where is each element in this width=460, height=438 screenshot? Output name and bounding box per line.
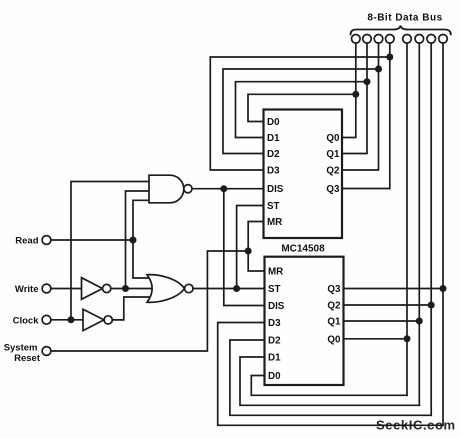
svg-text:D2: D2 <box>267 149 280 160</box>
input terminal Read <box>42 236 51 245</box>
input terminal Write <box>42 284 51 293</box>
wire bus bit3 to U1 D3 <box>210 57 389 170</box>
junction MR node <box>245 248 252 255</box>
wire bus bit7 loop to U2 D3 <box>218 323 443 426</box>
wire Write-inv to NAND input B <box>126 191 149 289</box>
inverter G4 (Clock) <box>83 309 104 330</box>
wire bus bit4 loop to U2 D0 <box>251 376 407 396</box>
bus terminal 8 <box>439 35 448 44</box>
svg-text:ST: ST <box>267 201 280 212</box>
svg-text:Q1: Q1 <box>327 317 341 328</box>
bus brace <box>351 26 451 35</box>
junction Read node <box>130 237 137 244</box>
wire bus bit3 vertical to U1 Q3 <box>342 43 390 188</box>
junction Write-inv node <box>122 285 129 292</box>
wire System Reset to MR node <box>51 251 248 351</box>
wire Clock to NAND input A <box>71 182 149 320</box>
svg-text:Write: Write <box>15 284 39 295</box>
wire bus bit0 vertical to U1 Q0 <box>342 43 356 137</box>
nand gate G1 <box>149 175 184 203</box>
wire bus bit0 to U1 D0 <box>248 94 356 121</box>
wire G3 output to NOR input <box>111 288 152 290</box>
nor gate G2 bubble <box>185 284 193 292</box>
wire Read to NAND input and NOR input <box>133 200 152 278</box>
svg-text:Q1: Q1 <box>326 149 340 160</box>
bus terminal 5 <box>403 35 412 44</box>
wire bus bit2 to U1 D2 <box>223 69 379 154</box>
svg-text:D3: D3 <box>268 318 281 329</box>
svg-text:Reset: Reset <box>14 353 41 364</box>
input terminal System Reset <box>42 347 51 356</box>
bus terminal 1 <box>352 35 361 44</box>
svg-text:D2: D2 <box>268 336 281 347</box>
wire U1 MR to U2 MR <box>248 222 264 272</box>
IC U2 MC14508 body <box>265 257 344 385</box>
wire bus bit1 vertical to U1 Q1 <box>342 43 367 153</box>
wire U2 Q2 to bus bit6 <box>344 304 432 306</box>
wire bus bit6 loop to U2 D2 <box>230 340 431 415</box>
wire G2 output to U2 ST <box>193 288 265 290</box>
wire bus bit6 vertical <box>430 43 432 415</box>
svg-text:D1: D1 <box>267 133 280 144</box>
bus terminal 3 <box>374 35 383 44</box>
wire bus bit2 vertical to U1 Q2 <box>342 43 379 170</box>
svg-text:ST: ST <box>268 284 281 295</box>
wire bus bit5 loop to U2 D1 <box>240 357 419 405</box>
svg-text:D0: D0 <box>267 117 280 128</box>
junction Q1 / bus bit5 <box>416 318 423 325</box>
svg-text:DIS: DIS <box>268 301 285 312</box>
svg-text:MC14508: MC14508 <box>281 244 325 255</box>
svg-text:D1: D1 <box>268 353 281 364</box>
junction Q2 / bus bit6 <box>428 302 435 309</box>
junction Clock node <box>68 316 75 323</box>
svg-text:Read: Read <box>15 235 38 246</box>
wire G4 output to NOR input <box>112 297 152 320</box>
junction Q0 / bus bit4 <box>404 335 411 342</box>
svg-text:D3: D3 <box>267 166 280 177</box>
wire Read line <box>51 239 133 241</box>
svg-text:Clock: Clock <box>13 315 40 326</box>
svg-text:Q3: Q3 <box>327 284 341 295</box>
junction G2 output node <box>233 285 240 292</box>
junction bus bit0 / D0 <box>352 91 359 98</box>
wire bus bit1 to U1 D1 <box>236 82 368 138</box>
bus terminal 4 <box>386 35 395 44</box>
svg-text:Q0: Q0 <box>327 334 341 345</box>
svg-text:Q3: Q3 <box>326 184 340 195</box>
wire bus bit4 vertical <box>406 43 408 395</box>
svg-text:MR: MR <box>267 217 282 228</box>
svg-text:MR: MR <box>268 267 283 278</box>
svg-text:SeekIC.com: SeekIC.com <box>376 418 456 433</box>
wire G1 output to U1 DIS <box>192 188 264 190</box>
junction bus bit2 / D2 <box>375 66 382 73</box>
svg-text:8-Bit Data Bus: 8-Bit Data Bus <box>367 13 442 24</box>
inverter G3 (Write) <box>82 278 103 300</box>
nor gate G2 <box>147 275 185 303</box>
IC U1 MC14508 body <box>264 110 343 239</box>
bus terminal 7 <box>427 35 436 44</box>
svg-text:DIS: DIS <box>267 184 284 195</box>
wire U2 Q1 to bus bit5 <box>344 320 420 322</box>
junction Q3 / bus bit7 <box>440 285 447 292</box>
nand gate G1 bubble <box>184 185 192 193</box>
bus terminal 6 <box>415 35 424 44</box>
bus terminal 2 <box>363 35 372 44</box>
junction bus bit1 / D1 <box>364 78 371 85</box>
wire U2 Q0 to bus bit4 <box>344 338 408 340</box>
wire Write line <box>51 288 82 290</box>
inverter G4 bubble <box>104 316 112 324</box>
wire U2 Q3 to bus bit7 <box>344 288 444 290</box>
wire bus bit5 vertical <box>418 43 420 405</box>
inverter G3 bubble <box>103 284 111 292</box>
wire G2 output to U1 ST <box>237 206 264 289</box>
wire bus bit7 vertical <box>442 43 444 425</box>
junction bus bit3 / D3 <box>386 54 393 61</box>
svg-text:Q0: Q0 <box>326 133 340 144</box>
wire Clock line <box>51 319 83 321</box>
svg-text:D0: D0 <box>268 371 281 382</box>
input terminal Clock <box>42 315 51 324</box>
junction G1 output node <box>220 185 227 192</box>
wire G1 output to U2 DIS <box>224 189 265 306</box>
svg-text:Q2: Q2 <box>327 301 341 312</box>
svg-text:Q2: Q2 <box>326 166 340 177</box>
